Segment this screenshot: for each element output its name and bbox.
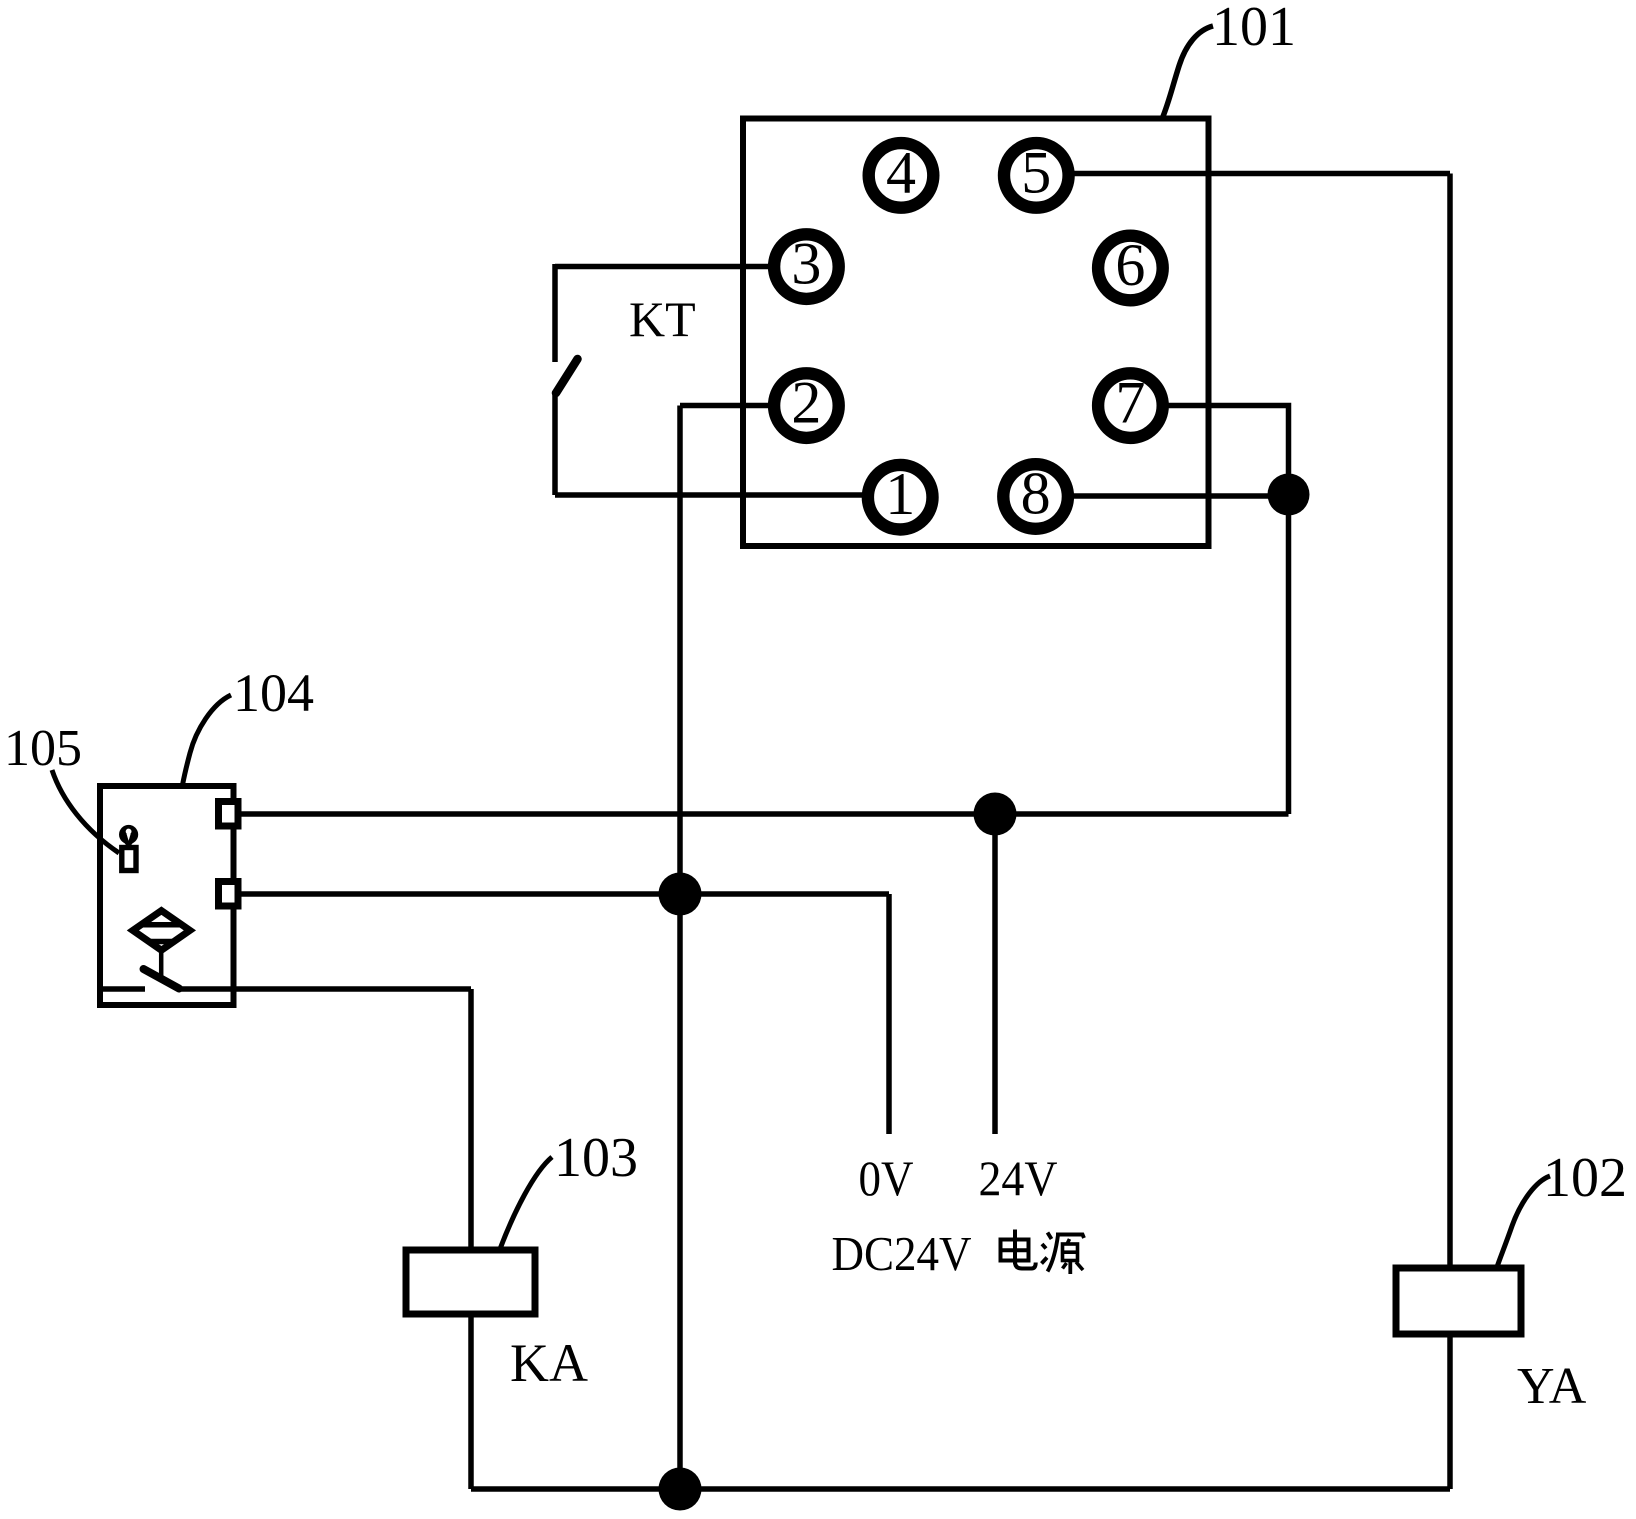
wire pin5 right: [1072, 171, 1450, 177]
svg-text:8: 8: [1021, 461, 1051, 527]
leader line to 104: [183, 695, 232, 785]
junction node at x680: [659, 873, 702, 916]
wire KA coil to bottom bus: [468, 1314, 474, 1489]
solenoid coil YA 102: [1396, 1268, 1521, 1334]
junction node pins 7/8: [1268, 474, 1310, 516]
relay socket box 101: [743, 119, 1209, 547]
leader line to 103: [500, 1157, 552, 1249]
wire pin7 right and down: [1166, 406, 1289, 495]
svg-text:KT: KT: [629, 291, 696, 347]
switch contact fixed segment (left) inside 104: [100, 986, 145, 992]
KT switch upper lead: [552, 264, 558, 362]
leader line to 102: [1497, 1176, 1550, 1267]
glyph 电 (power): [1001, 1230, 1036, 1269]
svg-text:104: 104: [233, 663, 314, 723]
terminal lower of 104: [219, 882, 239, 907]
svg-text:105: 105: [4, 720, 82, 777]
svg-text:24V: 24V: [979, 1150, 1058, 1206]
KT switch lower lead: [552, 391, 558, 495]
junction node 24V: [974, 793, 1017, 836]
svg-text:0V: 0V: [859, 1150, 914, 1206]
wire right vertical to YA: [1447, 174, 1453, 1269]
pressure switch box 104: [100, 786, 234, 1005]
pin 1: [868, 461, 933, 529]
wire YA coil to bottom bus: [1447, 1334, 1453, 1489]
svg-text:2: 2: [791, 370, 821, 436]
wire down to KA coil: [468, 989, 474, 1250]
wire pin3 to KT: [555, 264, 772, 270]
leader line to 105: [52, 770, 119, 853]
wire pin2 left: [680, 403, 770, 409]
relay coil KA 103: [406, 1250, 535, 1314]
pin 2: [774, 370, 839, 438]
horizontal wire y=894 (104 lower terminal to 0V stub): [237, 891, 889, 897]
key icon 105 (adjuster): [119, 825, 138, 871]
junction node bottom: [659, 1468, 702, 1511]
svg-text:103: 103: [554, 1127, 638, 1189]
actuator stem: [159, 950, 164, 976]
pin 8: [1003, 461, 1068, 529]
svg-text:3: 3: [791, 231, 821, 297]
switch blade of 104: [144, 969, 180, 989]
leader line to 101: [1162, 26, 1213, 119]
wire KT to pin1: [555, 492, 866, 498]
svg-text:5: 5: [1021, 139, 1051, 205]
svg-text:101: 101: [1212, 0, 1296, 58]
wire pin8 right: [1072, 493, 1289, 499]
svg-text:7: 7: [1115, 370, 1145, 436]
wire vertical x680 down to bottom: [677, 406, 683, 1490]
glyph 源 (source): [1042, 1233, 1085, 1275]
wire 24V stub: [992, 814, 998, 1134]
wire 0V stub: [886, 894, 892, 1134]
svg-text:4: 4: [886, 139, 916, 205]
svg-text:6: 6: [1115, 232, 1145, 298]
horizontal bus wire y=814 (104 upper terminal to right riser): [237, 811, 1289, 817]
svg-text:YA: YA: [1517, 1358, 1587, 1415]
pin 6: [1098, 232, 1163, 300]
wire down from junction to horizontal bus: [1286, 495, 1292, 815]
pin 7: [1098, 370, 1163, 438]
svg-text:DC24V: DC24V: [832, 1226, 972, 1281]
pin 3: [774, 231, 839, 299]
svg-text:1: 1: [885, 461, 915, 527]
svg-text:KA: KA: [510, 1333, 588, 1393]
pin 5: [1004, 139, 1069, 207]
terminal upper of 104: [219, 802, 239, 827]
wire from 104 switch to KA drop: [180, 986, 471, 992]
filter diamond inside 104: [133, 911, 190, 976]
bottom bus wire: [471, 1486, 1450, 1492]
KT switch blade: [556, 359, 578, 393]
pin 4: [869, 139, 934, 207]
svg-text:102: 102: [1543, 1147, 1627, 1209]
